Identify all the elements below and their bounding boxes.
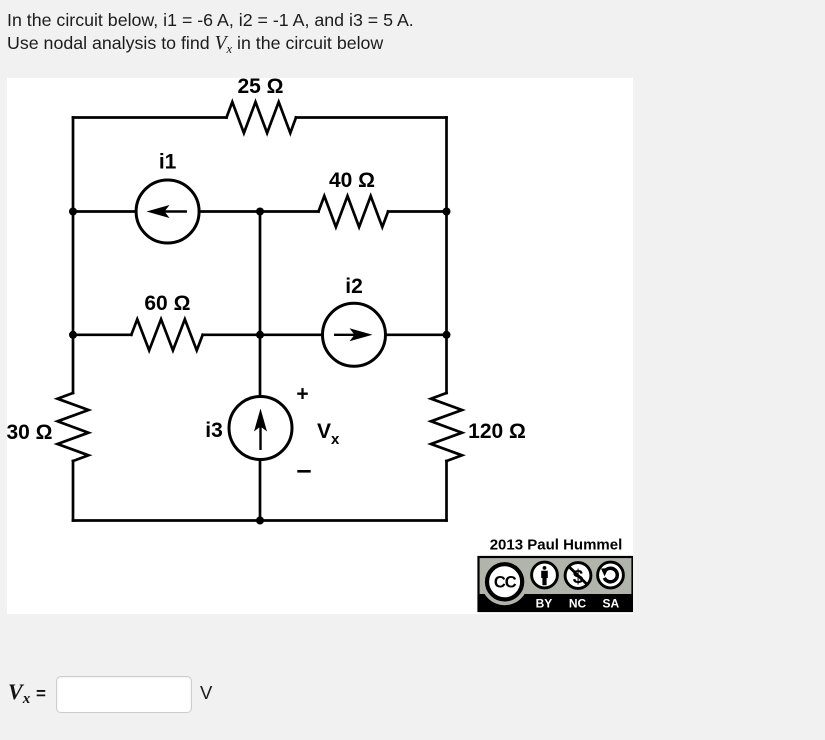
badge black strip bbox=[480, 594, 632, 610]
wire right vertical lower bbox=[445, 461, 448, 521]
current source i2 circle bbox=[323, 303, 386, 366]
wire middle vertical upper bbox=[259, 212, 262, 397]
node dot row3 right bbox=[443, 331, 451, 339]
CC license badge bbox=[479, 557, 633, 611]
SA icon bbox=[598, 562, 624, 588]
BY icon bbox=[532, 562, 558, 588]
wire middle vertical lower bbox=[259, 460, 262, 521]
NC icon bbox=[565, 563, 591, 589]
resistor R 30ohm zigzag bbox=[58, 393, 89, 461]
svg-text:120 Ω: 120 Ω bbox=[468, 420, 526, 443]
wire row2 right of 40ohm bbox=[388, 210, 446, 213]
svg-text:30 Ω: 30 Ω bbox=[7, 421, 53, 444]
svg-text:i1: i1 bbox=[159, 151, 177, 174]
wire row3 right of i2 bbox=[386, 333, 447, 336]
svg-text:60 Ω: 60 Ω bbox=[144, 292, 190, 315]
label minus sign bbox=[297, 470, 310, 473]
wire left vertical upper bbox=[72, 118, 75, 394]
answer unit V bbox=[200, 682, 212, 704]
problem statement text bbox=[7, 9, 414, 61]
resistor R 120ohm zigzag bbox=[431, 393, 462, 461]
wire left vertical lower bbox=[72, 461, 75, 521]
wire row2 left of i1 bbox=[73, 210, 136, 213]
wire top horizontal left segment bbox=[73, 116, 227, 119]
cc logo backdrop bbox=[481, 558, 528, 605]
svg-text:Vx: Vx bbox=[317, 420, 340, 448]
svg-text:i3: i3 bbox=[205, 419, 223, 442]
svg-text:40 Ω: 40 Ω bbox=[329, 169, 375, 192]
arrow i3 up bbox=[254, 409, 267, 451]
wire row2 i1 to node B bbox=[199, 210, 318, 213]
answer label Vx = bbox=[8, 679, 46, 708]
current source i1 circle bbox=[136, 180, 199, 243]
wire right vertical upper bbox=[445, 118, 448, 394]
current source i3 circle bbox=[229, 397, 292, 460]
svg-text:SA: SA bbox=[602, 597, 619, 611]
arrow i2 right bbox=[334, 328, 373, 341]
node dot row3 left bbox=[69, 331, 77, 339]
svg-text:i2: i2 bbox=[345, 275, 363, 298]
badge background bbox=[479, 557, 633, 611]
wire top horizontal right segment bbox=[296, 116, 447, 119]
wire row3 left of 60ohm bbox=[73, 333, 131, 336]
svg-text:25 Ω: 25 Ω bbox=[237, 78, 283, 98]
resistor R 25ohm zigzag bbox=[227, 102, 297, 133]
node dot bottom middle bbox=[256, 517, 264, 525]
cc logo circle bbox=[487, 564, 522, 599]
node dot row3 middle bbox=[256, 331, 264, 339]
badge BY NC SA labels bbox=[536, 597, 620, 611]
wire row3 60ohm to i2 bbox=[203, 333, 323, 336]
circuit image white background bbox=[7, 78, 633, 614]
svg-text:BY: BY bbox=[536, 597, 553, 611]
answer input box bbox=[56, 676, 192, 713]
svg-text:NC: NC bbox=[569, 597, 587, 611]
node dot row2 left bbox=[69, 208, 77, 216]
svg-text:CC: CC bbox=[494, 574, 517, 592]
arrow i1 left bbox=[147, 205, 188, 218]
svg-text:2013 Paul Hummel: 2013 Paul Hummel bbox=[490, 537, 623, 554]
resistor R 60ohm zigzag bbox=[131, 319, 202, 350]
wire bottom horizontal bbox=[73, 519, 447, 522]
resistor R 40ohm zigzag bbox=[319, 196, 389, 227]
node dot row2 middle bbox=[256, 208, 264, 216]
node dot row2 right bbox=[443, 208, 451, 216]
svg-text:+: + bbox=[296, 383, 308, 406]
